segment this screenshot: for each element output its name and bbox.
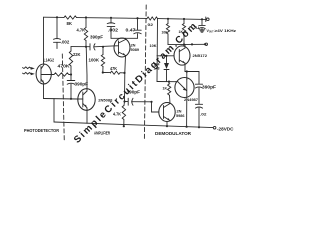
resistor 100K xyxy=(102,47,104,55)
transistor Q1 2N5088 xyxy=(78,89,95,111)
resistor 8K (in top rail) xyxy=(64,16,77,19)
svg-text:≥4V 1KHz: ≥4V 1KHz xyxy=(215,29,237,33)
node dots on top rail xyxy=(56,16,203,20)
svg-text:02: 02 xyxy=(148,22,154,27)
svg-text:.02: .02 xyxy=(200,112,207,117)
svg-text:1K: 1K xyxy=(163,85,168,90)
transistor Q2 2N5089 xyxy=(114,38,130,57)
wire right column xyxy=(198,72,200,84)
resistor 4.7K (Q1 collector load) xyxy=(85,18,87,28)
wire Q1 collector up xyxy=(85,47,88,91)
svg-text:.002: .002 xyxy=(108,28,119,33)
svg-text:100K: 100K xyxy=(89,57,100,62)
capacitor 2U with ground xyxy=(201,19,203,25)
svg-text:OUT: OUT xyxy=(209,31,214,34)
svg-text:2N5172: 2N5172 xyxy=(193,53,208,58)
diode 1N4148 xyxy=(166,56,168,63)
capacitor .02 xyxy=(195,103,202,105)
divider dashed photodetector/amplifier xyxy=(62,54,64,142)
wire collector bus y=44.6 xyxy=(168,43,206,45)
wire Q3 base xyxy=(157,55,173,57)
resistor 1K (right) xyxy=(183,19,185,24)
wire top rail mid segment xyxy=(77,17,148,20)
wire Q5 emitter down xyxy=(166,122,168,127)
wire left edge xyxy=(43,17,45,63)
svg-text:-28VDC: -28VDC xyxy=(217,126,234,131)
wire Q3 collector xyxy=(184,45,186,49)
svg-text:10K: 10K xyxy=(150,43,157,48)
svg-text:.002: .002 xyxy=(61,39,70,44)
wire Q3 emitter xyxy=(185,63,199,71)
svg-text:22K: 22K xyxy=(73,52,81,57)
svg-text:8K: 8K xyxy=(67,21,73,26)
divider dashed amplifier/demodulator xyxy=(144,5,146,139)
resistor 4.7K (Q2 emitter) xyxy=(122,102,125,127)
resistor 10K xyxy=(167,19,169,24)
node dot xyxy=(70,73,72,75)
wire Q2 collector up xyxy=(111,38,126,39)
terminal -28VDC xyxy=(213,126,216,129)
svg-text:L14G2: L14G2 xyxy=(44,58,55,63)
capacitor 390pF (series coupling to Q2) xyxy=(89,44,91,50)
capacitor 0.47 (from rail) xyxy=(137,18,139,30)
resistor 22K xyxy=(70,47,72,51)
wire Q2 emitter down xyxy=(125,56,126,102)
svg-text:47K: 47K xyxy=(110,66,117,71)
svg-text:10K: 10K xyxy=(162,30,168,35)
capacitor .002 (left, from rail) xyxy=(56,17,58,39)
wire node A horizontal xyxy=(44,98,78,101)
svg-text:AMPLIFIER: AMPLIFIER xyxy=(94,130,111,135)
svg-text:0.47: 0.47 xyxy=(126,27,137,32)
svg-text:5986: 5986 xyxy=(176,113,185,118)
svg-text:4.7K: 4.7K xyxy=(77,28,86,33)
UJT 2N4987 xyxy=(175,78,194,98)
svg-text:2N4987: 2N4987 xyxy=(184,98,198,102)
resistor 47K (horizontal) xyxy=(103,71,125,74)
light arrows xyxy=(23,67,31,69)
wire Q1 emitter down to rail xyxy=(86,108,88,124)
ground xyxy=(201,28,203,29)
wire top rail right segment xyxy=(158,18,206,21)
output terminal (top right) xyxy=(205,17,207,22)
wire UJT B2 up xyxy=(186,72,188,80)
wire Q5 collector up xyxy=(169,96,172,104)
capacitor 390pF (coupling to demodulator) xyxy=(125,101,128,103)
capacitor .002 (from rail to Q2) xyxy=(110,18,112,23)
svg-text:4.7K: 4.7K xyxy=(113,111,121,116)
wire phototransistor emitter down xyxy=(43,85,45,99)
svg-text:390pF: 390pF xyxy=(90,34,103,39)
wire bottom rail xyxy=(54,122,213,128)
capacitor 390pF (right) xyxy=(195,83,202,85)
svg-text:DEMODULATOR: DEMODULATOR xyxy=(155,131,192,136)
resistor 1K (above Q5) xyxy=(168,81,170,83)
wire to Q5 base xyxy=(152,102,159,112)
svg-text:5089: 5089 xyxy=(131,47,140,52)
wire x157 vertical (rail to UJT emitter wire) xyxy=(156,19,159,82)
wire UJT emitter xyxy=(157,81,175,83)
svg-text:390pF: 390pF xyxy=(202,84,217,89)
capacitor 390pF (feedback, vertical) xyxy=(70,75,72,81)
svg-text:PHOTODETECTOR: PHOTODETECTOR xyxy=(24,128,60,133)
wire top rail left segment xyxy=(44,16,65,18)
svg-text:470K: 470K xyxy=(58,63,70,68)
transistor Q3 2N5172 xyxy=(174,46,190,65)
transistor Q5 2N5986 xyxy=(159,103,175,122)
wire UJT B1 down to rail xyxy=(186,96,188,127)
svg-text:390pF: 390pF xyxy=(75,81,89,86)
wire 22K top to cap xyxy=(71,46,90,48)
resistor 100 (in top rail) xyxy=(147,17,158,20)
wire drop to bottom rail xyxy=(53,99,55,122)
